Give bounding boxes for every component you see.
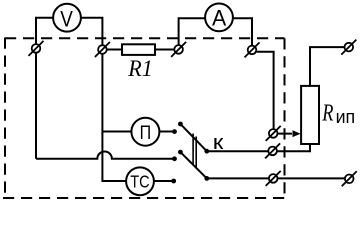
wire: terminal X2 to resistor R1 (102, 49, 121, 51)
gauge TC (126, 167, 154, 195)
resistor R1 body (122, 44, 155, 55)
wire: ammeter loop from terminal X3 up and over to terminal X4 (179, 18, 252, 50)
wire: terminal X4 right and down the inner right side to wiper terminal X5 (252, 52, 274, 134)
svg-text:к: к (213, 132, 224, 154)
junction dot: P fixed contact (172, 129, 177, 134)
svg-text:А: А (212, 6, 227, 31)
terminal X6 (265, 143, 280, 158)
rheostat Rip body (301, 86, 319, 144)
wire: switch pole 2 output to terminal X7 and external terminal X9 (207, 177, 349, 179)
terminal X7 (266, 171, 281, 186)
terminal X4 (245, 42, 260, 57)
svg-text:П: П (140, 122, 152, 144)
svg-text:V: V (60, 6, 73, 31)
switch K mechanical coupling bars (192, 134, 194, 165)
terminal X2 (95, 42, 110, 57)
wire: external terminal X8 to rheostat top (310, 47, 349, 86)
wire: branch from bus to P gauge (102, 131, 131, 133)
junction dot: pole 2 pivot (204, 176, 209, 181)
switch K pole 1 blade (180, 124, 206, 151)
voltmeter V (53, 4, 81, 32)
wire: TC gauge to switch fixed contact (154, 180, 174, 182)
svg-text:ип: ип (336, 107, 356, 127)
wire: left horizontal run at y=158.8 with crossover hop over vertical bus (36, 152, 175, 159)
wire: wiper arrow from terminal X5 to rheostat body (273, 133, 292, 135)
wire: voltmeter left lead down to terminal X1 and on down the left side (36, 18, 53, 159)
svg-text:ТС: ТС (130, 171, 149, 191)
wire: vertical bus from terminal X2 down to TC branch (102, 50, 126, 182)
terminal X5 (wiper) (266, 126, 281, 141)
svg-text:R: R (322, 100, 334, 126)
terminal X9 (bottom right) (342, 171, 357, 186)
junction dot: middle fixed contact (172, 156, 177, 161)
wire: voltmeter right lead down to terminal X2 (81, 18, 103, 50)
junction dot: pole 2 blade knob (178, 150, 183, 155)
wire: resistor R1 to terminal X3 (156, 49, 179, 51)
switch K pole 2 blade (180, 152, 206, 178)
junction dot: TC fixed contact (171, 179, 176, 184)
wire: P gauge to switch fixed contact (160, 131, 175, 133)
dashed instrument boundary box (3, 38, 285, 199)
terminal X8 (top right) (341, 40, 356, 55)
junction dot: pole 1 pivot (204, 149, 209, 154)
junction dot: pole 1 blade knob (178, 122, 183, 127)
wire: switch pole 1 output to terminal X6 and rheostat bottom (207, 144, 310, 151)
terminal X1 (29, 41, 44, 56)
terminal X3 (171, 42, 186, 57)
ammeter A (205, 4, 233, 32)
gauge P (131, 118, 159, 146)
svg-text:R1: R1 (127, 56, 152, 81)
